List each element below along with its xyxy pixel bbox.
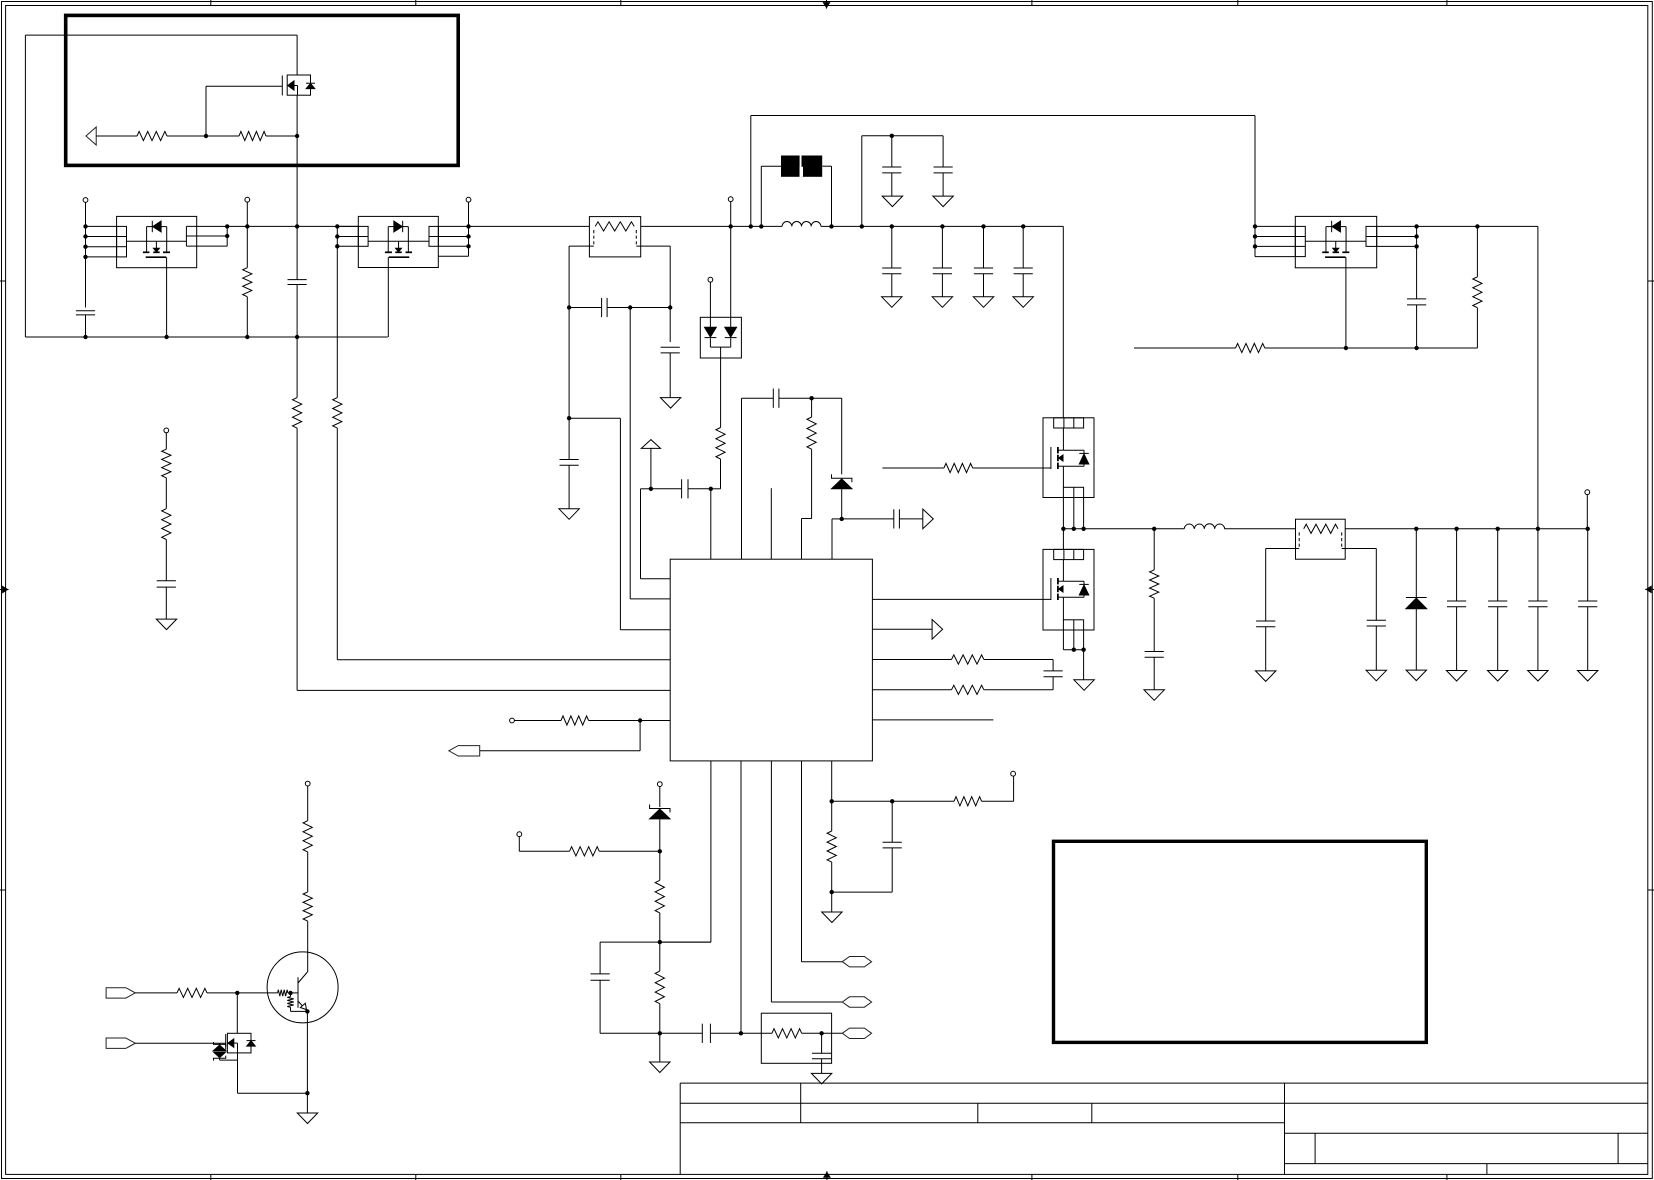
- wire D1 output down: [720, 358, 722, 428]
- mosfet internals: [1325, 227, 1327, 253]
- wire en to flag: [639, 721, 641, 751]
- ground C21: [1256, 671, 1276, 682]
- U4 left pin nodes: [1253, 224, 1257, 228]
- sense resistor RS2 box: [1296, 519, 1346, 559]
- wire rail-left down: [85, 226, 87, 307]
- capacitor C28: [157, 580, 176, 582]
- inductor L2: [1184, 524, 1225, 529]
- wire U1 bottom pin 4: [801, 761, 803, 962]
- diode D5: [1415, 529, 1417, 598]
- ground C24: [1488, 671, 1508, 682]
- wire zener branch: [812, 397, 842, 399]
- node ilim: [830, 799, 834, 803]
- resistor R7: [952, 655, 984, 664]
- capacitor C13 (ss): [842, 518, 894, 520]
- capacitor C16: [891, 801, 893, 842]
- resistor R10: [892, 800, 954, 802]
- U2 source tab: [166, 257, 168, 268]
- connector flag IN2: [106, 1038, 135, 1048]
- wire Q4 gate: [882, 467, 944, 469]
- terminal TP5: [708, 277, 713, 282]
- ground C6: [882, 196, 902, 207]
- wire rail to diode pack: [641, 225, 782, 227]
- resistor R1: [137, 131, 167, 140]
- capacitor C11: [1022, 226, 1024, 268]
- capacitor C2: [296, 226, 298, 279]
- wire VIN sense to controller: [296, 337, 298, 398]
- body diode: [1063, 449, 1084, 451]
- junction C23: [1454, 527, 1458, 531]
- resistor R8: [952, 685, 984, 694]
- node C16 top: [890, 799, 894, 803]
- wire R5 to comp node: [720, 459, 722, 489]
- node fb top: [809, 396, 813, 400]
- ground Q5: [1083, 650, 1085, 680]
- wire U1 right pin 1 (lo gate): [872, 598, 1051, 600]
- ground sense right: [660, 398, 680, 409]
- U2 right pin nodes: [225, 224, 229, 228]
- ground R9: [831, 892, 833, 912]
- terminal TP12: [164, 428, 169, 433]
- filter box B2: [761, 1013, 831, 1063]
- RS2 tap left: [1266, 548, 1300, 550]
- body diode: [402, 221, 404, 232]
- wire rail to sense box: [469, 225, 590, 227]
- capacitor C27: [1416, 226, 1418, 299]
- capacitor C25: [1537, 529, 1539, 601]
- RS1 sense tap right: [636, 245, 670, 247]
- wire to hex 3: [822, 1032, 843, 1034]
- body diode: [1063, 580, 1084, 582]
- wire Q2 emitter down: [306, 1011, 308, 1093]
- terminal TP8: [657, 782, 662, 787]
- wire input rail mid: [227, 225, 358, 227]
- ground C5: [559, 509, 579, 520]
- U3 pins right: [438, 225, 468, 227]
- junction sense left: [567, 305, 571, 309]
- title block row line 2 left: [680, 1122, 1284, 1124]
- node R1/R2: [204, 134, 208, 138]
- junction dots input rail left: [83, 224, 87, 228]
- package top pin block: [1054, 549, 1084, 559]
- wire rail down to Q4: [1062, 226, 1064, 417]
- test point hex 1: [842, 957, 871, 967]
- U4 pin block right: [1366, 226, 1377, 246]
- junction R3/gnd rail: [245, 335, 249, 339]
- capacitor C22: [1367, 619, 1386, 621]
- border centre mark right: [1645, 588, 1654, 590]
- wire U1 top pin 1 (comp): [710, 489, 712, 559]
- capacitor C26: [1587, 529, 1589, 601]
- resistor R9: [831, 801, 833, 831]
- capacitor C9: [941, 226, 943, 268]
- capacitor C21: [1256, 620, 1275, 622]
- node zener/ss: [840, 517, 844, 521]
- signal arrow out 1: [923, 509, 934, 529]
- node Q2 emitter: [305, 1009, 309, 1013]
- Q3 body diode: [247, 1040, 256, 1042]
- D1 common cathode: [710, 346, 730, 348]
- wire bootstrap branch: [861, 136, 863, 227]
- capacitor C19: [821, 1033, 823, 1053]
- ground fb chain: [659, 1033, 661, 1062]
- capacitor C7: [942, 136, 944, 167]
- dual diode D1 package: [700, 317, 741, 358]
- zener D4 pair: [219, 1043, 221, 1044]
- junction Q1 source rail: [295, 224, 299, 228]
- junction C26: [1586, 527, 1590, 531]
- wire U1 bottom pin 5: [831, 761, 833, 801]
- wire Q1 drain: [296, 35, 298, 75]
- terminal TP2: [245, 197, 250, 202]
- node vref: [649, 487, 653, 491]
- node fb3: [658, 1031, 662, 1035]
- Q3 gate bar: [225, 1034, 227, 1050]
- wire L2 to sense: [1224, 528, 1295, 530]
- wire rail to D1: [730, 226, 732, 327]
- junction C24: [1496, 527, 1500, 531]
- package bottom pin block: [1063, 620, 1083, 630]
- ground snubber: [1144, 690, 1164, 701]
- package outline: [1043, 549, 1094, 630]
- pin strap: [1305, 240, 1366, 242]
- capacitor C1: [76, 310, 95, 312]
- mosfet internals: [1062, 428, 1064, 450]
- junction C1/gnd rail: [83, 335, 87, 339]
- pin strap: [368, 240, 429, 242]
- junction C2/gnd rail: [295, 335, 299, 339]
- wire sense mid to IC: [629, 308, 631, 599]
- U4 source tab: [1345, 257, 1347, 268]
- body diode: [151, 221, 153, 232]
- ground C9: [932, 297, 952, 308]
- wire IN2 to gate: [135, 1042, 225, 1044]
- package outline: [1295, 216, 1376, 267]
- resistor R15: [303, 821, 312, 852]
- resistor R13: [659, 942, 661, 971]
- resistor R22: [293, 398, 302, 429]
- junction C9 rail: [940, 224, 944, 228]
- capacitor C8: [891, 226, 893, 268]
- Q3 internals: [228, 1039, 234, 1047]
- capacitor C20 (snubber): [1145, 651, 1164, 653]
- node U3 left rail: [335, 224, 339, 228]
- sense resistor RS1 element: [595, 222, 634, 231]
- ground C22: [1366, 670, 1386, 681]
- wire current sense to IC: [569, 417, 620, 419]
- fuse F1 leads: [761, 165, 781, 167]
- title block divider C: [1091, 1103, 1093, 1123]
- wire Q1 source: [296, 95, 298, 226]
- node snubber: [1152, 527, 1156, 531]
- border zone ticks top: [210, 0, 212, 6]
- wire comp elbow to pin: [641, 488, 651, 490]
- switch node wire: [1063, 528, 1184, 530]
- resistor R3: [246, 226, 248, 267]
- diode D1b: [725, 327, 737, 337]
- terminal TP4: [728, 197, 733, 202]
- U4 right pin nodes: [1414, 224, 1418, 228]
- node R14/C19: [819, 1031, 823, 1035]
- ground C11: [1013, 297, 1033, 308]
- wire ilim right: [832, 800, 893, 802]
- wire U1 bottom pin 3: [770, 761, 772, 1002]
- resistor R5 (comp upper): [716, 428, 725, 460]
- Q2 collector: [298, 972, 307, 983]
- Q5 source stubs: [1062, 630, 1064, 650]
- junction C10 rail: [981, 224, 985, 228]
- junction C25: [1536, 527, 1540, 531]
- border centre mark left: [0, 589, 9, 591]
- node comp: [709, 487, 713, 491]
- ground C26: [1578, 671, 1598, 682]
- connector flag IN1: [106, 988, 135, 998]
- resistor R16: [303, 892, 312, 921]
- resistor R2: [239, 131, 266, 140]
- capacitor C14 (comp): [651, 488, 682, 490]
- wire IN1 to R17: [135, 992, 177, 994]
- wire arrow to R1: [96, 135, 137, 137]
- ground C28: [156, 619, 176, 630]
- border zone ticks left: [0, 280, 6, 282]
- node C27 bottom: [1414, 346, 1418, 350]
- wire U1 top pin 4: [802, 518, 812, 520]
- resistor R4 (fb upper): [811, 398, 813, 417]
- wire U1 left pin 6 (en): [512, 720, 561, 722]
- junction sense right: [668, 305, 672, 309]
- resistor R17: [177, 988, 207, 997]
- resistor R18: [944, 463, 973, 472]
- Q2 internal pulldown resistor: [290, 993, 292, 997]
- ESD FET Q3 package: [227, 1033, 251, 1053]
- wire gate Q1: [205, 86, 207, 136]
- ground D5: [1406, 670, 1426, 681]
- package top pin block: [1054, 418, 1084, 428]
- U3 source tab: [387, 257, 389, 267]
- U2 pins left: [86, 225, 117, 227]
- input arrow CHG: [86, 127, 96, 145]
- node base divider: [235, 991, 239, 995]
- wire rail right: [1417, 225, 1538, 227]
- terminal TP3: [466, 197, 471, 202]
- wire Q3 source: [237, 1053, 239, 1093]
- wire U4 bottom: [1134, 347, 1236, 349]
- wire U1 bottom pin 2: [740, 761, 742, 1033]
- U2 pin block right: [186, 225, 227, 227]
- pin strap: [127, 240, 187, 242]
- zener D2: [832, 474, 852, 482]
- ground C23: [1446, 671, 1466, 682]
- node U4 source: [1344, 346, 1348, 350]
- inductor L1: [782, 222, 821, 227]
- Q4 source stubs: [1062, 498, 1064, 529]
- RS2 tap right: [1342, 548, 1377, 550]
- switch node dots: [1061, 527, 1065, 531]
- U3 pin block left: [358, 226, 368, 246]
- wire U1 right pin 3: [872, 659, 951, 661]
- resistor R23: [333, 398, 342, 429]
- title block outline: [680, 1082, 1648, 1084]
- capacitor C15: [1052, 660, 1054, 671]
- node Q2 base: [288, 991, 292, 995]
- Q2 emitter: [298, 1001, 307, 1011]
- body diode: [1331, 221, 1333, 232]
- resistor R6: [561, 716, 589, 725]
- transistor Q1 body diode: [306, 82, 315, 84]
- junction TP2 rail: [245, 224, 249, 228]
- wire R1 to node: [167, 135, 206, 137]
- border zone ticks right: [1648, 280, 1654, 282]
- border zone ticks bottom: [210, 1174, 212, 1180]
- capacitor C5: [568, 418, 570, 459]
- junction R21 rail: [1475, 224, 1479, 228]
- ground rail bottom wire: [25, 336, 387, 338]
- U3 pins left: [337, 225, 358, 227]
- transistor Q1 gate bar: [281, 76, 283, 96]
- U3 right pin nodes: [466, 224, 470, 228]
- resistor R21: [1473, 277, 1482, 308]
- ground C25: [1528, 671, 1548, 682]
- sense resistor RS2 element: [1304, 524, 1338, 533]
- wire VCC feed top: [751, 115, 1255, 117]
- U4 pin block left: [1295, 226, 1305, 256]
- title block row line 2 right: [1285, 1132, 1648, 1134]
- wire U1 top pin 5: [832, 518, 842, 520]
- title block bottom strip divider: [1486, 1164, 1488, 1175]
- ground C19: [811, 1073, 831, 1084]
- wire VCC feed up: [750, 116, 752, 227]
- junction F1 left: [759, 224, 763, 228]
- RS1 sense tap left: [569, 245, 594, 247]
- title block number box: [1285, 1163, 1648, 1165]
- package outline: [1043, 418, 1094, 498]
- U3 pin block right: [429, 226, 438, 246]
- capacitor C3 (sense filter): [569, 307, 602, 309]
- border centre mark bottom: [826, 1171, 828, 1180]
- sense resistor RS1 box: [589, 217, 640, 257]
- capacitor C17: [600, 941, 660, 943]
- junction sense mid: [628, 305, 632, 309]
- resistor R20: [1236, 343, 1265, 352]
- ground C7: [933, 196, 953, 207]
- RS1 kelvin dashes: [593, 230, 595, 246]
- U4 pins left: [1255, 225, 1295, 227]
- terminal TP9: [517, 832, 522, 837]
- signal arrow out 2: [872, 628, 932, 630]
- resistor R14: [772, 1029, 802, 1038]
- U4 pins right: [1377, 225, 1417, 227]
- node emitter/gnd: [305, 1091, 309, 1095]
- title block divider A: [800, 1083, 802, 1123]
- capacitor C23: [1456, 529, 1458, 601]
- zener D3: [650, 805, 670, 813]
- terminal TP6: [510, 718, 515, 723]
- junction C8 rail: [890, 224, 894, 228]
- mosfet internals: [1062, 560, 1064, 582]
- wire into filter box: [741, 1032, 772, 1034]
- Q5 source dots: [1072, 648, 1076, 652]
- node R9/C16: [830, 890, 834, 894]
- wire U1 right pin 4: [872, 689, 951, 691]
- junction bootstrap: [890, 134, 894, 138]
- capacitor C24: [1497, 529, 1499, 601]
- mosfet internals: [407, 227, 409, 253]
- wire VCC to U4: [1254, 116, 1256, 257]
- title block main divider: [1284, 1083, 1286, 1174]
- wire U1 left pin 1: [641, 578, 671, 580]
- wire feedback from output: [1537, 226, 1539, 528]
- node fb1: [658, 849, 662, 853]
- resistor R24: [162, 449, 171, 478]
- title block divider B: [977, 1103, 979, 1123]
- transistor Q1 internals: [288, 81, 294, 90]
- node R2/Q1: [295, 134, 299, 138]
- capacitor C6: [891, 136, 893, 167]
- node C18/U1: [739, 1031, 743, 1035]
- terminal TP11 (VOUT): [1585, 490, 1590, 495]
- wire VBAT top loop: [25, 34, 297, 36]
- diode D1a: [705, 327, 717, 337]
- resistor R12: [659, 851, 661, 880]
- wire VIN divider to controller: [336, 226, 338, 397]
- wire Q5 drain: [1062, 529, 1064, 550]
- wire rail after L1: [821, 225, 1063, 227]
- ground Q2: [306, 1093, 308, 1113]
- wire Q3 drain: [236, 993, 238, 1033]
- wire U1 top pin 2 (fb cap): [741, 398, 743, 559]
- RS2 kelvin dashes: [1298, 532, 1300, 548]
- capacitor C18: [660, 1032, 703, 1034]
- junction U2 source/gnd rail: [164, 335, 168, 339]
- package outline: [358, 216, 438, 267]
- fuse F1 pad right: [802, 156, 823, 177]
- Q2 internal base resistor: [278, 990, 288, 996]
- controller IC U1: [670, 559, 872, 761]
- package outline: [117, 216, 197, 267]
- terminal TP1: [83, 198, 88, 203]
- wire sense left down: [568, 308, 570, 419]
- wire fb2 to U1: [660, 941, 711, 943]
- junction F1 right: [829, 224, 833, 228]
- wire U1 right pin 5 stub: [872, 719, 993, 721]
- Q2 base bar: [297, 977, 299, 1008]
- border centre mark top: [826, 0, 828, 9]
- U2 pin block left: [117, 226, 127, 257]
- junction sense left lower: [567, 416, 571, 420]
- output rail: [1345, 528, 1588, 530]
- capacitor C12: [742, 397, 774, 399]
- node en: [638, 718, 642, 722]
- package bottom pin block: [1063, 487, 1083, 497]
- transistor Q2 (digital) circle: [267, 952, 338, 1023]
- terminal TP10: [305, 781, 310, 786]
- node fb2: [658, 940, 662, 944]
- transistor Q1 package: [287, 75, 310, 95]
- ground C8: [882, 297, 902, 308]
- test point hex 2: [842, 997, 871, 1007]
- ground C10: [973, 297, 993, 308]
- emphasis box (notes, bottom-right): [1054, 841, 1427, 1042]
- connector flag EN: [449, 746, 480, 756]
- junction TP4 rail: [729, 224, 733, 228]
- resistor R11: [519, 850, 569, 852]
- terminal TP7: [1013, 776, 1015, 801]
- wire U1 top pin 3 (nc stub): [770, 488, 772, 559]
- junction C11 rail: [1021, 224, 1025, 228]
- wire U1 bottom pin 1: [710, 761, 712, 942]
- junction diode D5: [1414, 527, 1418, 531]
- fuse F1 pad left: [781, 156, 800, 177]
